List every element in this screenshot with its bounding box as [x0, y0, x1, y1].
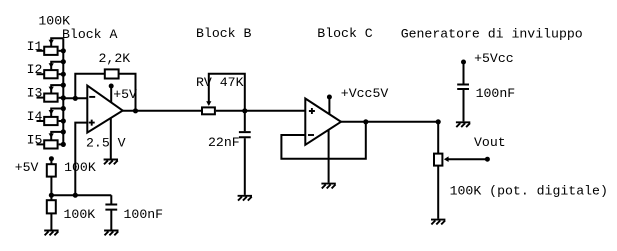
wire feedback C — [281, 122, 365, 159]
svg-text:2,2K: 2,2K — [99, 51, 131, 66]
node I3-bus — [61, 95, 66, 100]
bus (left vertical net) — [62, 38, 64, 144]
svg-text:+Vcc5V: +Vcc5V — [341, 86, 389, 101]
svg-text:Block A: Block A — [62, 27, 117, 42]
node output A — [133, 108, 138, 113]
svg-text:RV 47K: RV 47K — [196, 75, 244, 90]
wire op-amp C output — [341, 121, 438, 123]
node I5-bus — [61, 142, 66, 147]
svg-text:100K: 100K — [64, 207, 96, 222]
ground (100nF divider) — [104, 231, 118, 236]
node I5-wiper — [61, 129, 66, 134]
node feedback junction — [73, 96, 78, 101]
svg-text:+5Vcc: +5Vcc — [474, 51, 514, 66]
ground (op-amp A) — [104, 160, 118, 165]
node I4-wiper — [61, 106, 66, 111]
wire RV to op-amp C — [216, 110, 305, 112]
svg-text:Block C: Block C — [317, 26, 372, 41]
node B junction — [242, 108, 247, 113]
wire + input to divider — [75, 123, 87, 196]
ground (op-amp C) — [321, 184, 335, 189]
op-amp C V- pin wire — [328, 130, 330, 183]
op-amp U2 (Block C) — [305, 99, 341, 145]
ground (22nF) — [238, 196, 252, 201]
op-amp A V- pin wire — [110, 118, 112, 159]
svg-text:100nF: 100nF — [476, 86, 516, 101]
svg-text:2.5 V: 2.5 V — [86, 135, 126, 150]
node Vout terminal — [485, 157, 490, 162]
svg-text:+5V: +5V — [113, 87, 137, 102]
ground (100nF right) — [456, 122, 470, 127]
wire bus to inverting input — [63, 97, 87, 99]
node I2-wiper — [61, 59, 66, 64]
op-amp U1 (Block A) — [87, 86, 122, 133]
svg-text:22nF: 22nF — [208, 135, 240, 150]
node output C — [363, 119, 368, 124]
svg-text:+5V: +5V — [15, 160, 39, 175]
wire divider mid — [51, 194, 111, 196]
svg-text:100K: 100K — [64, 160, 96, 175]
svg-text:Generatore di inviluppo: Generatore di inviluppo — [401, 27, 583, 42]
node divider mid — [49, 193, 54, 198]
ground (100K lower) — [44, 231, 58, 236]
node I2-bus — [61, 72, 66, 77]
wire op-amp A output — [123, 110, 201, 112]
node right junction — [436, 119, 441, 124]
node I1-bus — [61, 48, 66, 53]
node I3-wiper — [61, 83, 66, 88]
svg-text:Block B: Block B — [196, 26, 251, 41]
svg-text:Vout: Vout — [474, 135, 506, 150]
node + input junction — [73, 193, 78, 198]
node I4-bus — [61, 118, 66, 123]
svg-text:100nF: 100nF — [124, 207, 164, 222]
ground (pot) — [431, 220, 445, 225]
svg-text:100K (pot. digitale): 100K (pot. digitale) — [450, 184, 608, 199]
